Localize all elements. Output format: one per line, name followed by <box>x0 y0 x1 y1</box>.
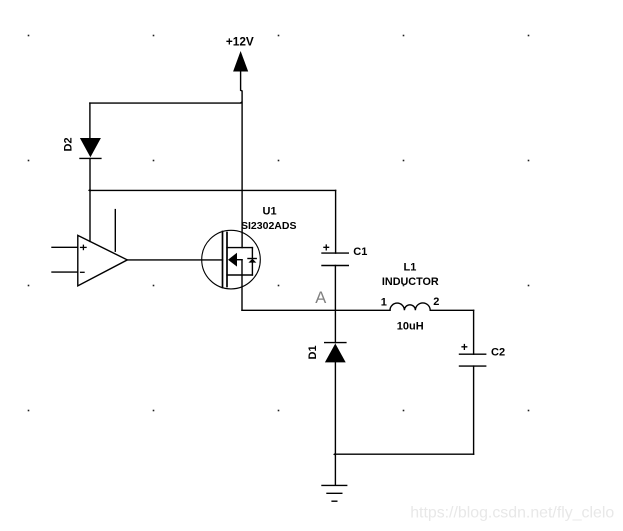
svg-text:https://blog.csdn.net/fly_clel: https://blog.csdn.net/fly_clelo <box>410 504 614 521</box>
svg-text:10uH: 10uH <box>397 321 424 333</box>
svg-text:D2: D2 <box>63 137 75 151</box>
svg-text:A: A <box>315 289 326 307</box>
svg-text:L1: L1 <box>404 261 417 273</box>
svg-text:+: + <box>323 240 330 254</box>
svg-text:D1: D1 <box>307 345 319 359</box>
svg-text:+12V: +12V <box>226 34 254 48</box>
svg-text:2: 2 <box>433 296 439 308</box>
svg-text:C2: C2 <box>491 346 505 358</box>
svg-text:U1: U1 <box>263 206 277 218</box>
svg-text:INDUCTOR: INDUCTOR <box>382 276 439 288</box>
svg-text:+: + <box>461 340 468 354</box>
svg-text:SI2302ADS: SI2302ADS <box>241 220 296 232</box>
svg-text:1: 1 <box>381 296 387 308</box>
svg-text:C1: C1 <box>353 246 367 258</box>
